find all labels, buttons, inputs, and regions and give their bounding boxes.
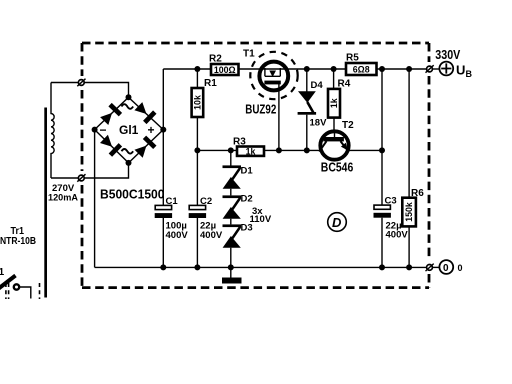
node R6 ground (406, 264, 412, 270)
bridge rectifier GL1 outline (95, 97, 164, 163)
svg-text:NTR-10B: NTR-10B (0, 235, 36, 247)
wire secondary top to terminal (51, 82, 78, 84)
svg-text:BUZ92: BUZ92 (245, 103, 276, 117)
svg-text:C1: C1 (166, 196, 179, 207)
wire rail to R1 (196, 69, 198, 88)
resistor R5 (346, 63, 377, 75)
wire T2 emitter to node (350, 149, 383, 151)
label ac top (122, 104, 134, 109)
resistor R4 (328, 89, 340, 118)
zener D1 (223, 165, 242, 195)
zener D2 (223, 195, 242, 224)
ground rail (95, 266, 427, 268)
wire rail to R4 (333, 69, 335, 89)
terminal bottom-right (426, 264, 434, 272)
chassis bar stub (230, 267, 232, 277)
wire to D1 (230, 150, 232, 166)
wire bridge plus down to C1 (162, 130, 164, 206)
svg-text:−: − (100, 123, 107, 137)
node bridge right (160, 127, 166, 133)
wire R6 to ground rail (408, 226, 410, 267)
svg-text:D1: D1 (241, 166, 254, 177)
svg-text:18V: 18V (310, 118, 328, 129)
node zener ground (228, 264, 234, 270)
node rail R4 (331, 66, 337, 72)
svg-text:150k: 150k (404, 202, 414, 222)
svg-text:D2: D2 (241, 194, 253, 205)
svg-text:B500C1500: B500C1500 (100, 188, 165, 202)
svg-text:D4: D4 (311, 80, 324, 91)
resistor R1 (192, 88, 204, 117)
wire output node down through emitter to C3 (381, 69, 383, 205)
wire secondary bottom to terminal (51, 177, 78, 179)
capacitor C3 (374, 205, 391, 267)
gate line (197, 149, 237, 151)
svg-text:110V: 110V (250, 214, 272, 225)
svg-text:B: B (466, 69, 473, 79)
svg-text:T1: T1 (243, 49, 255, 60)
dashed enclosure border bottom (82, 286, 429, 289)
wire R1 node down to C2 (196, 150, 198, 205)
resistor R3 (237, 147, 264, 156)
chassis bar (222, 278, 242, 284)
svg-text:10k: 10k (192, 95, 202, 110)
node emitter junction (379, 147, 385, 153)
wire terminal to 0 (433, 266, 440, 268)
svg-text:Gl1: Gl1 (119, 123, 139, 137)
svg-text:330V: 330V (435, 48, 461, 62)
node top rail R1 (194, 66, 200, 72)
svg-text:+: + (148, 123, 155, 137)
svg-text:D: D (332, 215, 342, 230)
bridge diode bottom-right (133, 136, 156, 159)
resistor R6 (402, 198, 416, 227)
svg-text:400V: 400V (166, 230, 189, 241)
dashed enclosure border top (82, 42, 429, 45)
wire bridge plus up to top rail (162, 69, 164, 130)
wire bridge minus down to ground rail (94, 130, 96, 268)
svg-text:R2: R2 (209, 54, 222, 65)
svg-text:0: 0 (458, 263, 463, 273)
svg-text:1k: 1k (329, 98, 339, 108)
resistor R2 (211, 64, 239, 75)
svg-text:1k: 1k (246, 147, 256, 157)
output UB plus symbol (439, 62, 453, 76)
transformer Tr1 secondary winding (51, 83, 54, 179)
svg-text:C2: C2 (200, 196, 212, 207)
bridge diode top-left (99, 103, 122, 126)
node bridge bottom (126, 160, 132, 166)
wire terminal to UB (433, 68, 440, 70)
wire rail to R6 (408, 69, 410, 198)
label ac bottom (122, 149, 134, 154)
svg-text:400V: 400V (386, 229, 409, 240)
wire switch to down (20, 287, 31, 299)
svg-text:R1: R1 (204, 78, 217, 89)
svg-text:0: 0 (443, 263, 449, 274)
svg-text:R6: R6 (411, 188, 424, 199)
capacitor C1 (155, 205, 172, 267)
svg-text:BC546: BC546 (321, 161, 354, 175)
node T1 gate (276, 147, 282, 153)
svg-text:S1: S1 (0, 267, 5, 278)
node gate line R1 (194, 147, 200, 153)
output 0 symbol (439, 260, 453, 274)
capacitor C2 (189, 205, 206, 267)
node rail D4 (304, 66, 310, 72)
node C3 ground (379, 264, 385, 270)
switch linkage dashes (6, 283, 40, 299)
node rail output (379, 66, 385, 72)
switch S1 lever (0, 276, 16, 290)
zener D3 (223, 224, 242, 267)
transformer Tr1 core (44, 108, 47, 298)
bridge diode bottom-left (99, 134, 122, 157)
svg-text:T2: T2 (342, 120, 354, 131)
svg-text:R4: R4 (338, 79, 351, 90)
svg-text:100Ω: 100Ω (214, 65, 236, 75)
node bridge top (126, 94, 132, 100)
T1 heatsink dashed circle (250, 52, 297, 99)
terminal top-left (77, 79, 85, 87)
wire R4 to T2 base (333, 118, 335, 131)
node bridge left (92, 127, 98, 133)
node zener chain top (228, 147, 234, 153)
svg-text:C3: C3 (385, 196, 397, 207)
svg-text:R3: R3 (233, 137, 246, 148)
bridge diode top-right (133, 101, 156, 124)
terminal top-right (426, 65, 434, 73)
terminal bottom-left (77, 174, 85, 182)
node rail R6 (406, 66, 412, 72)
wire R1 to gate line (196, 117, 198, 150)
dashed enclosure border left (81, 43, 84, 288)
wire terminal to bridge top (84, 83, 128, 97)
switch S1 contact (14, 284, 19, 289)
mosfet T1 BUZ92 (259, 62, 288, 151)
node C1 ground (160, 264, 166, 270)
top rail (163, 68, 426, 70)
svg-text:6Ω8: 6Ω8 (353, 65, 370, 75)
wire terminal to bridge bottom (84, 164, 128, 178)
node gate line D4 (304, 147, 310, 153)
dashed enclosure border right (428, 43, 431, 288)
circled D marker (328, 213, 347, 232)
zener D4 (298, 91, 317, 150)
svg-text:400V: 400V (200, 230, 223, 241)
wire rail to D4 (306, 69, 308, 92)
node C2 ground (194, 264, 200, 270)
svg-text:120mA: 120mA (48, 193, 78, 204)
svg-text:R5: R5 (346, 53, 359, 64)
svg-text:U: U (456, 63, 465, 78)
transistor T2 BC546 (319, 131, 348, 159)
